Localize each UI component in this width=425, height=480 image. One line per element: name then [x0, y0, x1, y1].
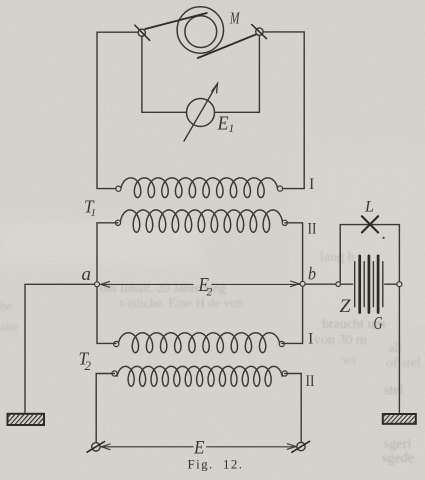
svg-text:E: E: [217, 114, 229, 135]
wire: cell G to right node: [385, 283, 397, 285]
wire: T1 secondary left lead down to node a: [97, 223, 118, 282]
wire: T2 primary right lead up to node b: [282, 286, 303, 343]
svg-text:2: 2: [207, 287, 213, 299]
wire: right vertical down to earth: [398, 287, 400, 414]
wire: node a to left earth riser: [25, 284, 95, 413]
label T1: [84, 197, 96, 220]
svg-text:2: 2: [85, 358, 92, 373]
wire: inner rect left (brush to E1): [142, 36, 187, 112]
wire: top rect right side: [264, 32, 305, 189]
svg-text:b: b: [308, 263, 316, 283]
motor M: [177, 7, 223, 53]
wire: T2 secondary right lead down to bottom terminal: [285, 374, 301, 443]
svg-text:L: L: [364, 199, 374, 216]
wire: node a down to T2 primary left lead: [97, 287, 116, 344]
svg-text:I: I: [308, 331, 313, 348]
brush arm (right): [198, 35, 256, 59]
wire: node b to junction: [305, 283, 335, 285]
terminal (bottom right): [292, 441, 310, 452]
transformer T2 secondary coil II: [112, 366, 288, 386]
ground (right): [383, 414, 416, 424]
svg-text:II: II: [306, 373, 315, 390]
dimension arrow E2 (a to b): [101, 281, 300, 287]
brush contact terminal (left): [135, 25, 150, 40]
brush arm (left): [145, 13, 207, 29]
wire: junction to cell G: [341, 283, 353, 285]
wire: T2 secondary left lead down to bottom terminal: [96, 374, 114, 443]
svg-text:Fig. 12.: Fig. 12.: [188, 456, 244, 471]
dimension arrow E (bottom): [101, 444, 296, 450]
svg-text:1: 1: [229, 123, 235, 135]
transformer T1 secondary coil II: [115, 210, 287, 232]
wire: lamp loop: [340, 225, 399, 282]
svg-text:II: II: [308, 221, 317, 238]
label T2: [79, 348, 92, 373]
node a: [95, 282, 100, 287]
terminal (bottom left): [87, 442, 105, 453]
svg-text:G: G: [374, 313, 383, 333]
wire: T1 secondary right lead down to node b: [285, 223, 303, 281]
brush contact terminal (right): [252, 25, 267, 39]
svg-text:a: a: [82, 264, 92, 285]
svg-text:M: M: [229, 9, 240, 28]
voltmeter E1: [184, 84, 218, 142]
svg-text:Z: Z: [340, 296, 351, 317]
transformer T1 primary coil I: [116, 178, 283, 198]
label E1: [217, 114, 235, 135]
lamp L: [362, 216, 378, 232]
ground (left): [8, 414, 45, 425]
transformer T2 primary coil I: [114, 333, 285, 353]
electrolytic cell G: [355, 256, 383, 313]
wire: inner rect right (brush to E1): [215, 36, 260, 113]
wire: top rect left side: [97, 32, 138, 188]
node b: [300, 281, 305, 286]
ink speck: [383, 237, 385, 239]
svg-text:1: 1: [91, 207, 97, 219]
svg-text:I: I: [309, 176, 314, 193]
node (right branch): [397, 282, 402, 287]
junction node (lamp branch left): [336, 282, 341, 287]
label E2: [198, 274, 213, 299]
